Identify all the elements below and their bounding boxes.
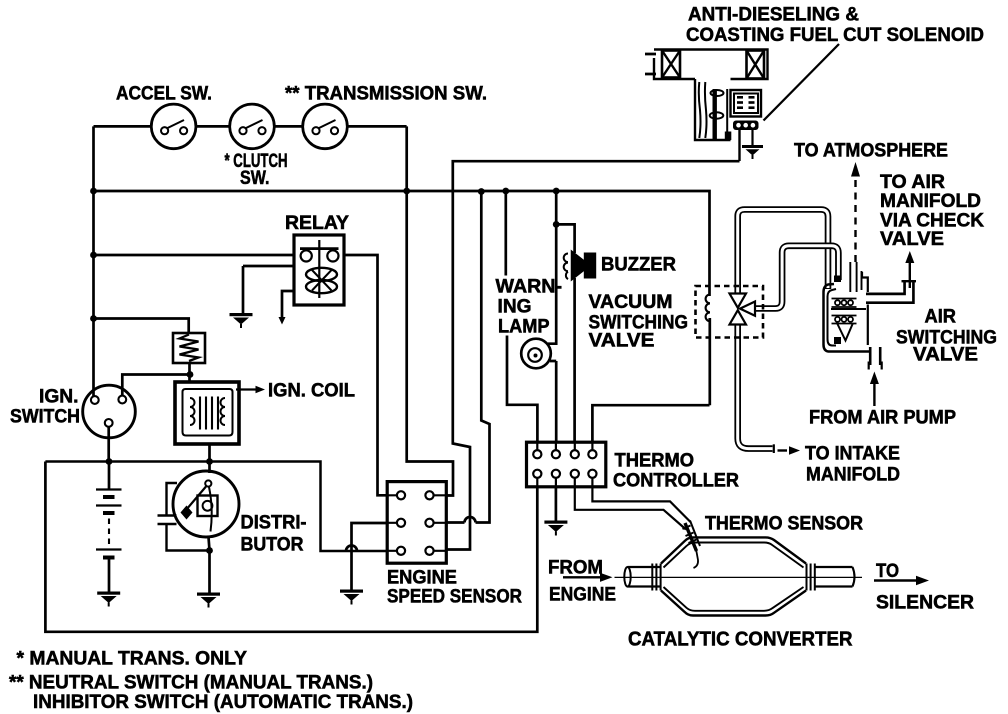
svg-text:ACCEL SW.: ACCEL SW. [116, 84, 212, 105]
svg-text:IGN.: IGN. [39, 387, 79, 408]
svg-text:SW.: SW. [240, 168, 270, 189]
svg-text:ENGINE: ENGINE [549, 585, 616, 606]
svg-text:WARN-: WARN- [496, 277, 563, 298]
svg-text:TO ATMOSPHERE: TO ATMOSPHERE [794, 141, 948, 162]
svg-text:ENGINE: ENGINE [387, 568, 457, 589]
svg-text:FROM: FROM [548, 558, 603, 579]
svg-text:VALVE: VALVE [913, 345, 978, 366]
svg-text:** NEUTRAL SWITCH (MANUAL TRAN: ** NEUTRAL SWITCH (MANUAL TRANS.) [9, 673, 373, 694]
svg-text:IGN. COIL: IGN. COIL [268, 381, 355, 402]
svg-text:VALVE: VALVE [589, 331, 655, 352]
svg-text:TO: TO [876, 561, 899, 582]
svg-text:AIR: AIR [925, 307, 957, 328]
svg-text:CONTROLLER: CONTROLLER [613, 471, 739, 492]
svg-text:BUZZER: BUZZER [601, 255, 676, 276]
svg-text:ANTI-DIESELING &: ANTI-DIESELING & [688, 5, 859, 26]
svg-text:BUTOR: BUTOR [241, 535, 304, 556]
svg-text:* MANUAL TRANS. ONLY: * MANUAL TRANS. ONLY [17, 649, 248, 670]
svg-text:DISTRI-: DISTRI- [241, 513, 307, 534]
svg-text:TO INTAKE: TO INTAKE [805, 444, 900, 465]
svg-text:SPEED SENSOR: SPEED SENSOR [387, 587, 522, 608]
svg-text:VACUUM: VACUUM [589, 292, 673, 313]
svg-text:MANIFOLD: MANIFOLD [806, 465, 900, 486]
svg-text:MANIFOLD: MANIFOLD [880, 191, 981, 212]
svg-text:THERMO SENSOR: THERMO SENSOR [705, 514, 863, 535]
svg-text:** TRANSMISSION SW.: ** TRANSMISSION SW. [285, 84, 487, 105]
svg-text:SILENCER: SILENCER [876, 593, 974, 614]
svg-text:VALVE: VALVE [880, 229, 944, 250]
svg-text:LAMP: LAMP [498, 317, 550, 338]
svg-text:ING: ING [498, 297, 532, 318]
svg-text:CATALYTIC CONVERTER: CATALYTIC CONVERTER [628, 629, 853, 651]
svg-text:FROM AIR PUMP: FROM AIR PUMP [809, 408, 956, 429]
svg-text:TO AIR: TO AIR [880, 172, 945, 193]
svg-text:COASTING FUEL CUT SOLENOID: COASTING FUEL CUT SOLENOID [686, 25, 984, 46]
svg-text:RELAY: RELAY [285, 213, 349, 234]
svg-text:INHIBITOR SWITCH (AUTOMATIC TR: INHIBITOR SWITCH (AUTOMATIC TRANS.) [33, 692, 413, 713]
svg-text:THERMO: THERMO [615, 451, 695, 472]
svg-text:SWITCH: SWITCH [10, 407, 80, 428]
